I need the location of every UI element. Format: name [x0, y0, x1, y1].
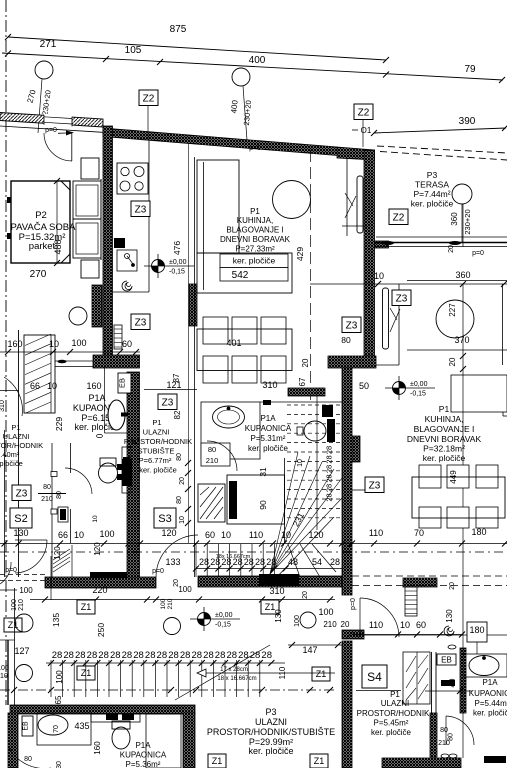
- top-left exterior wall: [0, 113, 103, 128]
- svg-text:PROSTOR/HODNIK: PROSTOR/HODNIK: [0, 441, 43, 450]
- boundary line right units: [352, 634, 507, 636]
- dim row y344: [0, 351, 140, 353]
- door arc bottom-left: [9, 748, 51, 768]
- svg-text:28: 28: [192, 650, 203, 661]
- svg-text:28: 28: [325, 455, 334, 463]
- svg-text:100: 100: [160, 598, 167, 609]
- interior face line: [0, 126, 103, 132]
- svg-text:28: 28: [226, 650, 237, 661]
- left bathroom washbasin: [108, 400, 125, 430]
- svg-text:250: 250: [96, 623, 106, 637]
- svg-text:28: 28: [330, 557, 340, 567]
- svg-text:90: 90: [258, 500, 268, 510]
- svg-text:28: 28: [122, 650, 133, 661]
- direction arrow: [197, 672, 335, 674]
- svg-text:80: 80: [208, 445, 216, 454]
- round table: [273, 181, 311, 219]
- right kitchen counter: [451, 375, 507, 412]
- svg-text:80: 80: [341, 335, 351, 345]
- svg-text:476: 476: [172, 241, 182, 255]
- svg-text:ker. pločiče: ker. pločiče: [423, 453, 466, 463]
- svg-text:P=7.44m²: P=7.44m²: [413, 189, 450, 199]
- svg-text:130: 130: [13, 528, 28, 538]
- verticals terrace right unit: [398, 284, 400, 365]
- O1 label: [352, 129, 358, 131]
- svg-text:160: 160: [93, 741, 102, 755]
- wall jog right: [328, 356, 376, 368]
- svg-text:210: 210: [167, 598, 174, 609]
- dim line 147: [288, 644, 342, 646]
- svg-text:p=0: p=0: [472, 250, 484, 257]
- svg-text:Z2: Z2: [358, 107, 370, 118]
- svg-text:271: 271: [40, 39, 57, 50]
- dining table right: [419, 465, 441, 488]
- svg-text:ULAZNI: ULAZNI: [3, 432, 30, 441]
- svg-text:110: 110: [249, 530, 263, 540]
- shelf with rungs: [114, 325, 122, 349]
- svg-text:18x 16.667cm: 18x 16.667cm: [216, 554, 251, 560]
- left exterior wall line: [18, 330, 20, 577]
- svg-text:220: 220: [92, 585, 107, 595]
- WC bottom-left: [112, 727, 130, 749]
- svg-text:10: 10: [221, 530, 231, 540]
- svg-text:P1: P1: [11, 423, 20, 432]
- mid flight risers: [195, 544, 197, 577]
- svg-text:Z3: Z3: [162, 397, 174, 408]
- heater dark: [288, 388, 325, 396]
- svg-text:10: 10: [400, 620, 410, 630]
- svg-text:20: 20: [448, 245, 455, 253]
- svg-text:Z3: Z3: [16, 488, 28, 499]
- EB box right: [437, 654, 456, 665]
- svg-text:p=0: p=0: [350, 598, 357, 610]
- svg-text:PROSTOR/HODNIK: PROSTOR/HODNIK: [357, 709, 430, 718]
- bottom flight risers: [50, 660, 52, 697]
- svg-text:135: 135: [51, 613, 61, 627]
- svg-text:O1: O1: [361, 126, 372, 135]
- dark bar near landing: [229, 481, 237, 519]
- svg-text:EB: EB: [441, 656, 452, 665]
- central partition wall vertical: [127, 372, 140, 580]
- rug P2 room: [11, 181, 70, 263]
- Z2 box top1: [139, 90, 158, 106]
- svg-text:270: 270: [30, 269, 47, 280]
- svg-text:ker. pločiče: ker. pločiče: [371, 728, 412, 737]
- bed: [73, 181, 101, 219]
- svg-text:401: 401: [226, 338, 241, 348]
- second dim line: [0, 689, 335, 691]
- svg-text:±0,00: ±0,00: [169, 259, 187, 266]
- svg-text:30: 30: [56, 761, 63, 768]
- svg-text:50: 50: [359, 381, 369, 391]
- svg-text:80: 80: [43, 484, 51, 491]
- svg-text:435: 435: [74, 721, 89, 731]
- svg-text:54: 54: [312, 557, 322, 567]
- svg-text:100: 100: [11, 599, 18, 611]
- bathroom bottom-left right wall: [183, 713, 195, 768]
- door arc right stub: [360, 598, 399, 637]
- dim row y535: [0, 543, 507, 545]
- svg-text:KUPAONICA: KUPAONICA: [469, 689, 507, 698]
- svg-text:100: 100: [71, 338, 86, 348]
- svg-text:Z3: Z3: [369, 480, 381, 491]
- kitchen counter: [148, 140, 150, 292]
- svg-text:KUPAONICA: KUPAONICA: [245, 424, 292, 433]
- svg-text:Z3: Z3: [346, 320, 358, 331]
- svg-text:79: 79: [464, 64, 476, 75]
- svg-text:ker. pločiče: ker. pločiče: [0, 459, 23, 468]
- svg-text:20: 20: [341, 620, 350, 629]
- door arc bathroom mid: [207, 441, 237, 471]
- washbasin right: [463, 654, 507, 677]
- left unit partition wall vertical: [103, 126, 113, 361]
- spiral vent: [122, 281, 132, 291]
- elevation marker right: [385, 376, 435, 400]
- svg-text:28: 28: [266, 557, 276, 567]
- svg-text:210: 210: [18, 599, 25, 611]
- bathroom bottom-left left wall: [8, 713, 18, 768]
- svg-text:±0,00: ±0,00: [410, 381, 428, 388]
- circle 227: [436, 300, 474, 338]
- right-center wall vertical lower: [342, 641, 352, 768]
- svg-text:10: 10: [92, 515, 99, 523]
- svg-text:KUHINJA,: KUHINJA,: [425, 414, 464, 424]
- svg-text:P=6.77m²: P=6.77m²: [139, 456, 172, 465]
- vanity bottom-left: [37, 713, 91, 745]
- dimension line 390: [374, 128, 506, 133]
- wall between hodnik and bathroom right: [430, 713, 437, 757]
- middle bathroom outline: [201, 402, 260, 459]
- svg-text:82: 82: [173, 410, 182, 419]
- elevation marker central: [144, 254, 194, 278]
- Z3 box left wall: [12, 485, 31, 501]
- svg-text:parket: parket: [29, 241, 56, 252]
- svg-text:-0,15: -0,15: [410, 391, 426, 398]
- svg-text:28: 28: [238, 650, 249, 661]
- svg-text:28: 28: [261, 650, 272, 661]
- wardrobe: [24, 335, 55, 413]
- svg-text:28: 28: [75, 650, 86, 661]
- door arc left wall: [4, 377, 22, 416]
- bathroom bottom-left top wall: [10, 705, 195, 714]
- radiator on left wall: [92, 285, 102, 327]
- svg-text:Z3: Z3: [135, 204, 147, 215]
- black door leaf left bathroom: [122, 447, 131, 493]
- svg-text:p=0: p=0: [45, 127, 57, 134]
- svg-text:28: 28: [255, 557, 265, 567]
- column marker circle 270/230+20: [35, 61, 53, 79]
- svg-text:67: 67: [298, 377, 307, 386]
- svg-text:DNEVNI BORAVAK: DNEVNI BORAVAK: [220, 235, 291, 244]
- svg-text:370: 370: [454, 335, 469, 345]
- dim marks y632 right: [352, 634, 463, 636]
- bottom dim line y599: [30, 599, 335, 601]
- svg-text:210: 210: [0, 673, 8, 680]
- svg-text:KUPAONICA: KUPAONICA: [120, 751, 167, 760]
- svg-text:210: 210: [206, 456, 219, 465]
- svg-text:66: 66: [58, 530, 68, 540]
- svg-text:P1: P1: [390, 690, 400, 699]
- svg-text:28: 28: [215, 650, 226, 661]
- svg-text:10: 10: [179, 516, 186, 524]
- tall kitchen unit: [197, 160, 239, 253]
- svg-text:28: 28: [325, 493, 334, 501]
- left bathroom WC: [99, 463, 118, 483]
- top wall of central unit: [103, 128, 337, 156]
- counter top: [91, 714, 140, 722]
- Z3 box kitchen: [131, 201, 150, 217]
- svg-text:100: 100: [294, 615, 301, 627]
- svg-text:Z1: Z1: [316, 669, 327, 679]
- svg-text:310: 310: [0, 400, 6, 412]
- svg-text:20: 20: [449, 582, 456, 590]
- landing outline: [227, 475, 285, 524]
- svg-text:p=0: p=0: [5, 567, 17, 574]
- svg-text:p=0: p=0: [152, 568, 164, 575]
- svg-text:P=5.36m²: P=5.36m²: [126, 760, 161, 768]
- elevation marker bottom: [190, 607, 240, 631]
- svg-text:28: 28: [180, 650, 191, 661]
- svg-text:28: 28: [325, 474, 334, 482]
- svg-text:180: 180: [469, 625, 484, 635]
- svg-text:28: 28: [203, 650, 214, 661]
- dim row stairs y568: [196, 568, 342, 570]
- svg-text:120: 120: [161, 528, 176, 538]
- S4 box: [362, 665, 387, 688]
- svg-text:Z1: Z1: [81, 602, 92, 612]
- svg-text:ker. pločiče: ker. pločiče: [248, 444, 289, 453]
- line y350 right: [407, 349, 507, 351]
- svg-text:130: 130: [274, 609, 283, 623]
- svg-text:210: 210: [41, 496, 53, 503]
- svg-text:ker. pločiče: ker. pločiče: [233, 256, 276, 266]
- column circles bottom: [15, 614, 33, 632]
- svg-text:P=27.33m²: P=27.33m²: [235, 245, 275, 254]
- svg-text:28: 28: [110, 650, 121, 661]
- Z2 box top2: [354, 104, 373, 120]
- svg-text:100: 100: [178, 585, 192, 594]
- svg-text:80: 80: [24, 756, 32, 763]
- svg-text:P3: P3: [265, 707, 276, 717]
- svg-text:P=5.31m²: P=5.31m²: [251, 434, 286, 443]
- svg-text:80: 80: [56, 491, 63, 499]
- bottom-right exterior wall: [382, 758, 461, 768]
- svg-text:ULAZNI: ULAZNI: [381, 699, 409, 708]
- svg-text:130: 130: [445, 609, 454, 623]
- svg-text:DNEVNI BORAVAK: DNEVNI BORAVAK: [407, 434, 482, 444]
- svg-text:110: 110: [369, 620, 383, 630]
- door arc right bathroom: [446, 716, 474, 745]
- svg-text:STUBIŠTE: STUBIŠTE: [138, 447, 175, 456]
- svg-text:P1: P1: [439, 404, 450, 414]
- mid flight going line: [274, 517, 334, 580]
- svg-text:P=5.45m²: P=5.45m²: [374, 719, 409, 728]
- svg-text:-0,15: -0,15: [169, 269, 185, 276]
- svg-text:P1A: P1A: [260, 414, 276, 423]
- wall stub right: [342, 630, 364, 639]
- svg-text:28: 28: [98, 650, 109, 661]
- svg-text:P=5.40m²: P=5.40m²: [0, 450, 20, 459]
- landing edge: [284, 458, 286, 544]
- column marker circle 400/230+20: [232, 68, 250, 86]
- long vertical axis right: [462, 204, 464, 247]
- svg-text:133: 133: [165, 557, 180, 567]
- svg-text:28: 28: [87, 650, 98, 661]
- svg-text:S3: S3: [158, 513, 171, 525]
- bottom wall right section (stairs): [198, 576, 352, 587]
- svg-text:160: 160: [86, 381, 101, 391]
- black threshold: [90, 572, 127, 579]
- bottom flight dim line: [46, 662, 285, 664]
- washing circle: [69, 307, 87, 325]
- svg-text:180: 180: [471, 527, 486, 537]
- svg-text:110: 110: [278, 666, 287, 679]
- spiral right: [444, 626, 454, 636]
- door 80 box bathroom: [201, 443, 230, 466]
- svg-text:120: 120: [93, 542, 102, 556]
- svg-text:110: 110: [369, 528, 383, 538]
- svg-text:80: 80: [176, 453, 183, 461]
- svg-text:S4: S4: [367, 670, 382, 684]
- svg-text:28: 28: [52, 650, 63, 661]
- property boundary dash-dot: [5, 0, 7, 705]
- EB rotated bottom-left: [22, 716, 33, 736]
- svg-text:BLAGOVANJE I: BLAGOVANJE I: [414, 424, 475, 434]
- svg-text:127: 127: [14, 646, 29, 656]
- svg-text:120: 120: [308, 530, 323, 540]
- svg-text:66: 66: [30, 381, 40, 391]
- svg-text:80: 80: [440, 727, 448, 734]
- svg-text:100: 100: [19, 586, 33, 595]
- svg-text:P1: P1: [152, 418, 161, 427]
- ker.plocice box: [220, 254, 288, 268]
- terrace column circle 360/230+20: [452, 184, 472, 204]
- svg-text:Z2: Z2: [393, 212, 405, 223]
- svg-text:360: 360: [450, 212, 459, 226]
- svg-text:Z3: Z3: [396, 293, 408, 304]
- svg-text:400: 400: [249, 55, 266, 66]
- svg-text:10: 10: [374, 271, 384, 281]
- svg-text:BLAGOVANJE I: BLAGOVANJE I: [226, 226, 283, 235]
- corner wall block top-right: [337, 147, 375, 160]
- svg-text:210: 210: [323, 620, 337, 629]
- stair fan diagonals: [270, 452, 298, 574]
- svg-text:229: 229: [54, 417, 64, 431]
- ladder right: [405, 587, 417, 616]
- svg-text:P1A: P1A: [482, 678, 498, 687]
- svg-text:390: 390: [459, 116, 476, 127]
- left bathroom door frame: [51, 443, 53, 577]
- svg-text:28: 28: [157, 650, 168, 661]
- svg-text:488: 488: [53, 239, 63, 254]
- svg-text:230+20: 230+20: [463, 209, 472, 234]
- stove: [117, 163, 148, 194]
- svg-text:Z3: Z3: [135, 317, 147, 328]
- svg-text:20: 20: [173, 579, 180, 587]
- svg-text:120: 120: [53, 546, 62, 560]
- svg-text:P1A: P1A: [88, 393, 105, 403]
- svg-text:542: 542: [232, 270, 249, 281]
- black appliance: [122, 459, 132, 486]
- svg-text:48: 48: [288, 557, 298, 567]
- dim 488: [56, 181, 58, 263]
- svg-text:P2: P2: [35, 210, 47, 221]
- Z3 box left60: [131, 314, 150, 330]
- svg-text:310: 310: [262, 380, 277, 390]
- window in right wing wall: [383, 288, 389, 349]
- svg-text:ULAZNI: ULAZNI: [255, 717, 287, 727]
- svg-text:10: 10: [281, 530, 291, 540]
- room boundary x192: [194, 157, 196, 577]
- door arc stair opening: [156, 535, 198, 577]
- svg-text:P1: P1: [250, 207, 260, 216]
- svg-text:28: 28: [168, 650, 179, 661]
- 542 box: [220, 268, 288, 282]
- sink unit: [114, 238, 125, 248]
- svg-text:10: 10: [297, 459, 304, 467]
- 180 window box: [467, 622, 487, 642]
- svg-text:P3: P3: [427, 170, 438, 180]
- svg-text:60: 60: [205, 530, 215, 540]
- svg-text:105: 105: [125, 45, 142, 56]
- svg-text:70: 70: [414, 528, 424, 538]
- svg-text:Z1: Z1: [212, 756, 223, 766]
- svg-text:ULAZNI: ULAZNI: [143, 428, 170, 437]
- shower right: [403, 652, 430, 704]
- dashed centre line: [310, 150, 312, 402]
- svg-text:31: 31: [258, 467, 268, 477]
- window O1: [346, 158, 348, 236]
- room boundary line y390: [144, 389, 197, 391]
- dim chain hodnik: [188, 143, 190, 543]
- black wall section bottom-right: [484, 756, 506, 763]
- EB box rotated left: [118, 373, 132, 393]
- svg-text:ker. pločiče: ker. pločiče: [411, 199, 454, 209]
- svg-text:p=0: p=0: [249, 145, 261, 152]
- svg-text:18 x 16.667cm: 18 x 16.667cm: [217, 676, 256, 682]
- S3 box: [154, 508, 176, 528]
- svg-text:20: 20: [179, 477, 186, 485]
- svg-text:160: 160: [7, 339, 22, 349]
- svg-text:429: 429: [295, 247, 305, 261]
- door arc top-left: [44, 133, 72, 161]
- svg-text:449: 449: [449, 470, 458, 484]
- svg-text:210: 210: [438, 740, 450, 747]
- svg-text:10: 10: [47, 381, 57, 391]
- svg-text:±0,00: ±0,00: [215, 612, 233, 619]
- svg-text:P=5.44m²: P=5.44m²: [475, 699, 507, 708]
- svg-text:28: 28: [145, 650, 156, 661]
- upper stair flight dashed treads: [287, 404, 342, 406]
- svg-text:60: 60: [416, 620, 426, 630]
- door opening in top wall: [44, 114, 72, 126]
- svg-text:ker. pločiče: ker. pločiče: [248, 746, 293, 756]
- Z boxes right: [342, 317, 361, 333]
- svg-text:28: 28: [63, 650, 74, 661]
- line y284: [310, 283, 507, 285]
- left boundary S2: [4, 430, 6, 577]
- terrace window sill: [376, 236, 507, 238]
- WC middle: [304, 421, 326, 441]
- svg-text:20: 20: [302, 591, 309, 599]
- svg-text:875: 875: [170, 24, 187, 35]
- svg-text:80: 80: [176, 496, 183, 504]
- dimension line 271/105/400/79: [2, 53, 503, 80]
- svg-text:70: 70: [53, 725, 60, 733]
- dimension line 875: [8, 37, 386, 60]
- svg-text:17 x 28cm: 17 x 28cm: [220, 667, 248, 673]
- svg-text:Z1: Z1: [314, 756, 325, 766]
